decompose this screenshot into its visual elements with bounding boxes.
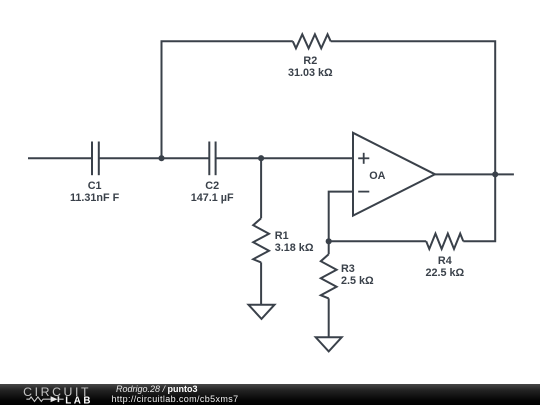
capacitor C1 bbox=[92, 142, 99, 176]
op-amp OA triangle bbox=[353, 133, 435, 216]
resistor R3 bbox=[321, 254, 337, 298]
node junction output bbox=[492, 171, 498, 177]
ground below R1 bbox=[249, 305, 275, 319]
wire input segment left of C1 bbox=[28, 157, 92, 159]
footer CircuitLab logo bbox=[0, 384, 110, 405]
wire C2 to op-amp non-inverting input bbox=[216, 157, 353, 159]
wire R3 bottom lead bbox=[328, 298, 330, 337]
capacitor C2 bbox=[209, 142, 215, 176]
label R2 bbox=[288, 55, 333, 80]
logo word LAB bbox=[65, 395, 93, 405]
resistor R4 bbox=[426, 234, 463, 249]
logo diode bbox=[51, 396, 64, 402]
node junction C2-R1-opamp bbox=[258, 155, 264, 161]
wire R1 bottom lead bbox=[260, 262, 262, 304]
svg-text:LAB: LAB bbox=[65, 395, 93, 405]
wire R1 top lead bbox=[260, 158, 262, 218]
wire output segment bbox=[435, 173, 514, 175]
op-amp minus input symbol bbox=[358, 191, 369, 193]
op-amp plus input symbol bbox=[358, 153, 369, 164]
wire top-right segment and right vertical down to R4 bbox=[331, 41, 496, 241]
label R4 bbox=[425, 255, 464, 280]
footer title line bbox=[116, 384, 198, 394]
label C1 bbox=[70, 180, 119, 205]
resistor R2 bbox=[293, 34, 331, 48]
label OA (op-amp name) bbox=[369, 170, 385, 182]
footer bar bbox=[0, 384, 540, 405]
label R1 bbox=[275, 230, 314, 255]
logo word CIRCUIT bbox=[23, 385, 91, 399]
resistor R1 bbox=[253, 218, 269, 262]
label C2 bbox=[191, 180, 234, 205]
wire feedback riser and top-left segment bbox=[162, 41, 293, 158]
node junction C1-C2-R2 bbox=[158, 155, 164, 161]
logo resistor zigzag bbox=[26, 397, 50, 402]
footer url line bbox=[112, 394, 239, 404]
wire R3 top lead bbox=[328, 241, 330, 254]
wire between C1 and C2 bbox=[99, 157, 210, 159]
wire inverting input stub and drop to feedback node bbox=[329, 192, 353, 242]
label R3 bbox=[341, 263, 374, 288]
ground below R3 bbox=[316, 337, 342, 351]
wire feedback bottom left segment bbox=[329, 240, 427, 242]
node junction inverting-R3-R4 bbox=[326, 238, 332, 244]
